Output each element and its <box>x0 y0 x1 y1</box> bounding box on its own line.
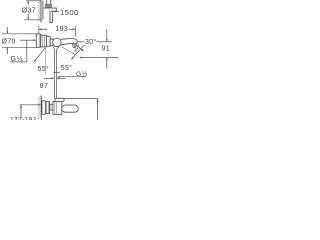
tilted spout tip V <box>74 45 76 53</box>
tilted spout line <box>60 46 75 54</box>
right vertical dimension with up arrow <box>97 99 99 120</box>
spout tip <box>72 38 78 44</box>
wall hatching (bottom view) <box>38 96 41 119</box>
body second block <box>46 36 50 46</box>
svg-text:Ø70: Ø70 <box>2 39 16 46</box>
hand shower holder bracket <box>43 8 56 11</box>
handle centerline <box>44 48 46 75</box>
G 1/2 left leader horizontal with arrow <box>20 39 35 41</box>
dimension Ø70 arrows <box>6 27 8 34</box>
G 1/2 left underline <box>11 61 28 63</box>
svg-text:172-192: 172-192 <box>10 116 37 120</box>
dimension 87 right arrow <box>57 77 65 79</box>
30° reference line <box>78 41 84 43</box>
G 1/2 bottom leader with arrow <box>59 76 87 78</box>
spout bottom edge <box>61 43 72 44</box>
left dimension vertical with up arrow <box>20 105 22 119</box>
connector nut (top view) <box>50 104 53 110</box>
svg-text:193: 193 <box>55 26 68 33</box>
wall line (top detail) <box>40 0 42 23</box>
pipe up <box>46 0 48 4</box>
svg-text:87: 87 <box>40 83 48 90</box>
aerator <box>73 44 76 48</box>
valve body (top view) <box>45 102 49 114</box>
30° ray with arrow <box>74 43 84 51</box>
dimension Ø37 arrows <box>27 1 29 5</box>
dimension 193 left arrow <box>39 28 47 30</box>
escutcheon (front view) <box>36 34 40 48</box>
dimension 193 right extension <box>74 26 76 37</box>
55° ray (second) with arrow <box>72 45 85 59</box>
pivot cap (top view) <box>55 98 64 101</box>
leader line to 1500 <box>55 11 59 13</box>
wall-union escutcheon edge (top detail) <box>42 1 44 20</box>
spout (top view) <box>62 105 78 112</box>
ball joint <box>53 38 62 47</box>
svg-text:1500: 1500 <box>60 8 79 17</box>
55° ray (first) with arrow <box>35 48 46 61</box>
pipe nut tick <box>54 71 60 73</box>
spout top edge <box>61 37 72 40</box>
right extension line <box>64 98 98 100</box>
dimension 193 left extension <box>38 26 40 34</box>
svg-text:55°: 55° <box>38 65 50 73</box>
svg-text:Ø37: Ø37 <box>22 7 36 14</box>
shower outlet pipes going down <box>53 49 55 98</box>
valve body <box>41 35 47 47</box>
hose nut <box>46 4 52 8</box>
connection nut <box>50 39 53 46</box>
svg-text:91: 91 <box>102 44 111 53</box>
dimension Ø37 extension lines <box>26 0 41 2</box>
dimension Ø70 extension lines <box>2 33 36 35</box>
spout base block (top view) <box>53 102 62 115</box>
G 1/2 left leader vertical <box>26 40 28 62</box>
dimension 87 left arrow <box>44 77 54 79</box>
left dimension horizontal with arrow to wall <box>19 104 40 106</box>
shower hose going down <box>50 11 53 23</box>
wall line (bottom view) <box>40 96 42 121</box>
lower reference line with left arrow <box>80 57 118 59</box>
wall hatching (top detail) <box>38 0 41 21</box>
dimension 91 bottom arrow <box>106 58 108 69</box>
dimension 193 right arrow <box>69 28 75 30</box>
dimension 91 top arrow <box>106 29 108 42</box>
escutcheon (top view) <box>42 101 46 115</box>
svg-text:55°: 55° <box>61 64 73 72</box>
svg-text:30°: 30° <box>85 38 97 46</box>
